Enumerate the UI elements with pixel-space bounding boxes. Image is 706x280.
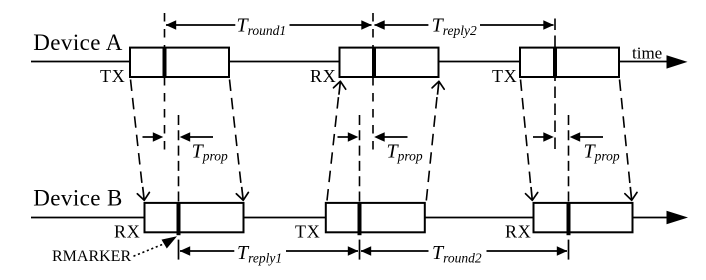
svg-text:Treply1: Treply1 [237,242,282,265]
RMARKER bar in frame B2 [358,202,362,235]
label RX frame B1 [114,222,141,242]
Tprop arrows 3 [533,132,603,142]
Tprop arrows 1 [143,132,214,142]
label Treply2 [432,15,477,38]
Tround2 dimension arrow [361,246,568,256]
frame B1 RX [145,203,244,232]
dashed line at B TX2 marker [359,115,361,203]
svg-text:Treply2: Treply2 [432,15,477,38]
svg-text:Tprop: Tprop [584,140,620,163]
svg-text:time: time [632,43,662,62]
svg-text:RX: RX [114,222,141,242]
RMARKER bar in frame A1 [163,47,167,78]
svg-text:RX: RX [505,222,532,242]
device A timeline [31,55,688,68]
label Tprop 2 [387,140,423,163]
label Treply1 [237,242,282,265]
svg-text:TX: TX [295,222,321,242]
frame A1 TX [130,48,229,77]
message 2 left edge dashed (B to A) [327,81,346,200]
dashed line at A TX1 marker [164,13,166,150]
label TX frame A3 [492,66,518,86]
svg-text:TX: TX [492,66,518,86]
label TX frame B2 [295,222,321,242]
Tprop arrows 2 [338,132,408,142]
RMARKER bar in frame B3 [567,202,571,235]
svg-text:RMARKER: RMARKER [52,248,131,265]
RMARKER pointer dotted arrow [134,236,178,256]
dashed line at A TX3 marker [554,19,556,151]
svg-text:Tprop: Tprop [192,140,228,163]
frame B3 RX [534,203,633,232]
label RX frame B3 [505,222,532,242]
message 1 left edge dashed (A to B) [131,80,150,201]
svg-text:Tround1: Tround1 [237,15,287,38]
message 3 right edge dashed (A to B) [620,80,638,201]
label RMARKER [52,248,131,265]
device B timeline [31,211,688,224]
svg-text:Tprop: Tprop [387,140,423,163]
label time axis [632,43,662,62]
label Tprop 1 [192,140,228,163]
svg-text:TX: TX [100,66,126,86]
tick below B RX3 marker [568,240,570,260]
svg-text:Device A: Device A [33,30,122,55]
svg-text:Device B: Device B [33,186,122,211]
label RX frame A2 [310,66,337,86]
frame A2 RX [340,48,439,77]
Treply2 dimension arrow [374,20,554,30]
label TX frame A1 [100,66,126,86]
dashed line at B RX3 marker [568,115,570,203]
message 3 left edge dashed (A to B) [521,80,538,201]
dashed line at B RX1 marker [178,115,180,203]
frame A3 TX [520,48,619,77]
dashed line at A RX2 marker [372,13,374,150]
label Tround1 [237,15,287,38]
svg-text:RX: RX [310,66,337,86]
Tround1 dimension arrow [166,20,372,30]
tick below B TX2 marker [359,240,361,260]
frame B2 TX [326,203,425,232]
RMARKER bar in frame A2 [372,47,376,78]
RMARKER bar in frame A3 [553,47,557,78]
Treply1 dimension arrow [180,246,359,256]
svg-text:Tround2: Tround2 [432,242,482,265]
label Tprop 3 [584,140,620,163]
label Device A [33,30,122,55]
message 2 right edge dashed (B to A) [426,81,444,200]
label Tround2 [432,242,482,265]
message 1 right edge dashed (A to B) [230,80,249,201]
label Device B [33,186,122,211]
tick below B RX1 marker [178,240,180,260]
RMARKER bar in frame B1 [177,202,181,235]
